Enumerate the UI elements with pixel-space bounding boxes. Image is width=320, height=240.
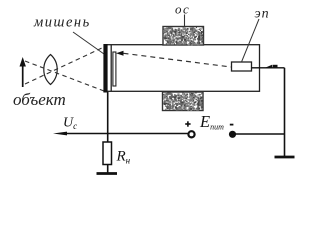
electron beam (dashed) with arrowhead at target: [116, 51, 231, 67]
leader line from "ос" to top coil: [184, 15, 186, 27]
svg-text:ос: ос: [175, 2, 190, 17]
deflection coil ос (bottom): [163, 92, 204, 111]
ground (left): [97, 172, 118, 175]
target plate (мишень) thick bar: [103, 44, 107, 93]
wire from target down to resistor: [107, 92, 109, 142]
leader line from label "мишень" to target plate: [73, 32, 104, 54]
vidicon tube body: [105, 45, 260, 92]
svg-text:мишень: мишень: [33, 15, 91, 31]
svg-text:объект: объект: [13, 90, 66, 109]
mesh electrode rect: [113, 52, 116, 86]
electron gun эп: [232, 62, 252, 71]
output arrow (left) on bottom wire: [53, 132, 67, 136]
terminal - (filled dot): [229, 131, 236, 138]
light ray bottom (dashed, object bottom to target top): [25, 47, 104, 84]
label "+": [185, 121, 190, 126]
right rail wire (down): [284, 68, 286, 156]
deflection coil ос (top): [163, 27, 204, 46]
leader line from "эп" to gun: [242, 19, 260, 62]
resistor R_н: [103, 142, 112, 165]
wire from gun anode to right rail: [252, 67, 285, 69]
ground (right): [275, 156, 295, 159]
svg-text:эп: эп: [255, 7, 270, 22]
light ray top (dashed, object top to target bottom): [25, 61, 104, 91]
faceplate line: [110, 45, 112, 92]
bottom wire right segment: [233, 133, 285, 135]
wire from resistor to ground: [107, 165, 109, 173]
terminal + (open circle): [188, 131, 194, 137]
object arrow (объект): [20, 57, 26, 87]
arrow + dash marks on anode wire: [265, 65, 278, 68]
lens: [44, 55, 57, 85]
bottom wire left segment: [63, 133, 188, 135]
label "-": [230, 124, 234, 126]
